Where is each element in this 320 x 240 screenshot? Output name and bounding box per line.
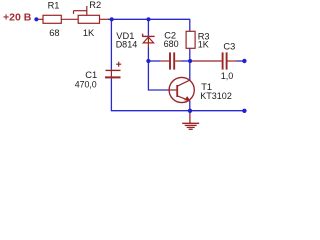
svg-text:1,0: 1,0	[221, 71, 234, 81]
svg-text:R1: R1	[48, 0, 60, 10]
svg-text:68: 68	[49, 28, 59, 38]
svg-text:+20 В: +20 В	[3, 12, 32, 24]
svg-text:D814: D814	[116, 39, 138, 49]
svg-text:1K: 1K	[198, 40, 209, 50]
svg-text:470,0: 470,0	[75, 79, 97, 89]
svg-text:1K: 1K	[83, 28, 95, 38]
svg-text:KT3102: KT3102	[200, 91, 232, 101]
svg-text:R2: R2	[89, 0, 101, 10]
svg-text:C3: C3	[223, 42, 235, 52]
svg-text:680: 680	[164, 39, 179, 49]
